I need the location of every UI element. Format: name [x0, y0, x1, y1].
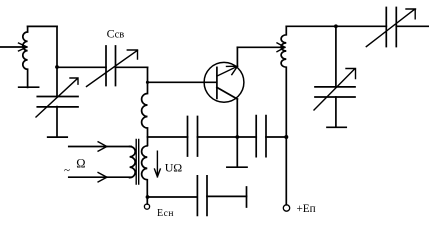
node (base branch 147.5,82.5): [146, 81, 149, 84]
capacitor C4 (right variable) plates: [315, 87, 355, 97]
wire (to C6): [148, 196, 198, 198]
UΩ arrow: [155, 151, 161, 177]
svg-text:UΩ: UΩ: [165, 161, 182, 175]
wire (down from top rail to C4): [335, 26, 337, 86]
transformer T1 core: [136, 140, 139, 185]
inductor L1: [23, 26, 28, 87]
capacitor Ссв variable arrow: [87, 50, 138, 87]
transformer T1 secondary coil: [142, 146, 148, 204]
transformer primary arrow (upper): [69, 142, 131, 151]
wire (emitter up): [236, 47, 238, 66]
transistor VT1 circle: [204, 62, 244, 102]
capacitor C4 variable arrow: [314, 69, 356, 111]
wire (C6 to side ground): [207, 195, 247, 197]
node (335.6,26.3): [334, 24, 338, 28]
wire (top left, L1 top to C1 branch): [28, 25, 57, 27]
wire (tank vertical x=147.5 with inductor L2): [142, 67, 148, 145]
capacitor C2 (left blocking): [188, 117, 198, 157]
inductor L3 (right coil): [281, 26, 286, 205]
ground (under C4): [327, 126, 346, 128]
capacitor C1 (left variable) plates: [37, 97, 78, 107]
wire (to Ссв): [57, 66, 106, 68]
transformer T1 primary coil: [130, 146, 136, 177]
transistor VT1 emitter with arrow: [217, 66, 238, 76]
node (147.5,197): [146, 195, 150, 199]
capacitor C6 (bottom) plates: [197, 176, 207, 216]
wire (collector down to ground): [236, 99, 238, 167]
ground (under L1): [19, 86, 39, 88]
svg-text:Есн: Есн: [157, 208, 174, 219]
wire (C3 to right rail): [266, 136, 286, 138]
svg-text:Ссв: Ссв: [107, 26, 125, 40]
ground (under C1): [48, 136, 67, 138]
capacitor C5 variable arrow: [366, 9, 415, 47]
wire (branch at y=136.7 to C-blocking): [148, 136, 188, 138]
svg-text:+Еп: +Еп: [297, 203, 316, 215]
ground (under transistor): [227, 166, 247, 168]
wire (Ссв to tank vertical): [116, 66, 148, 68]
wire (emitter tap arrow into L3): [237, 43, 285, 52]
wire (vertical x=57 down to C1): [56, 26, 58, 96]
wire (C4 to ground): [335, 97, 337, 127]
wire (C1 to ground): [56, 107, 58, 137]
terminal +Еп: [283, 205, 289, 211]
capacitor C5 (top right variable) plates: [386, 8, 396, 47]
terminal Есн: [144, 204, 149, 209]
node (237.5,136.7): [235, 135, 239, 139]
capacitor C1 variable arrow: [36, 78, 78, 117]
transformer primary arrow (lower): [69, 173, 131, 182]
capacitor C3 (right blocking): [256, 116, 266, 157]
svg-text:~: ~: [64, 165, 70, 177]
transistor VT1 collector: [217, 87, 238, 99]
wire (C5 to right edge): [396, 25, 429, 27]
wire (base wire to transistor): [148, 81, 217, 83]
capacitor Ссв plates: [106, 46, 116, 86]
input arrow into L1: [0, 43, 27, 51]
ground (sideways bar): [246, 187, 248, 207]
node (junction at 57,67.3): [55, 65, 59, 69]
transistor VT1 base bar: [216, 67, 218, 98]
wire (top right rail): [286, 25, 386, 27]
wire (between caps, through emitter node): [198, 136, 257, 138]
node (286.3,136.7): [284, 135, 288, 139]
svg-text:Ω: Ω: [76, 156, 85, 170]
